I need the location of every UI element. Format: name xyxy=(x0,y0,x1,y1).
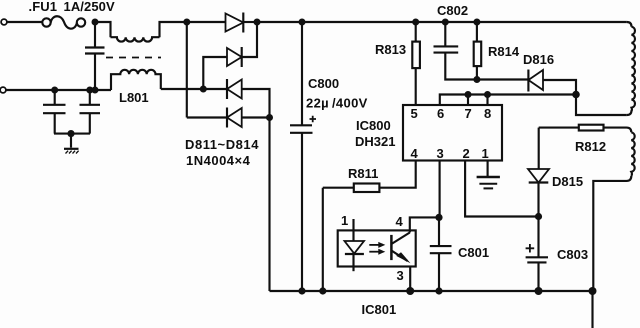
pin 8 xyxy=(484,106,491,121)
wire pin4 to R811 xyxy=(379,161,415,188)
node fuse output xyxy=(92,19,99,26)
label D815 xyxy=(552,174,583,189)
wire bottom bus xyxy=(270,290,593,292)
label IC800 xyxy=(356,118,391,133)
core dashed line L801 xyxy=(106,57,161,59)
svg-text:IC801: IC801 xyxy=(362,302,397,317)
svg-text:3: 3 xyxy=(437,146,444,161)
diode D816 xyxy=(528,70,576,95)
diode D813 xyxy=(227,79,270,118)
transformer T secondary winding xyxy=(593,128,634,291)
node bus C803 xyxy=(535,287,543,295)
wire DC- down xyxy=(268,118,270,292)
resistor R813 xyxy=(412,22,420,105)
label C801 xyxy=(458,245,489,260)
pin 7 xyxy=(465,106,472,121)
node bridge AC2 xyxy=(200,86,207,93)
svg-text:C803: C803 xyxy=(557,247,588,262)
transformer T primary winding xyxy=(576,22,635,115)
wire Y-caps common xyxy=(54,133,90,135)
svg-text:IC800: IC800 xyxy=(356,118,391,133)
node X-cap bottom xyxy=(92,87,99,94)
label R813 xyxy=(375,42,406,57)
inductor L801 top winding xyxy=(111,37,160,41)
wire AC neutral xyxy=(6,89,111,91)
node pin7 xyxy=(465,91,472,98)
wire pin3 down xyxy=(439,161,441,218)
svg-text:.FU1 1A/250V: .FU1 1A/250V xyxy=(29,0,116,14)
pin 4 xyxy=(411,146,419,161)
wire terminal to fuse xyxy=(7,21,43,23)
svg-text:6: 6 xyxy=(437,106,444,121)
ground (IC pin1) xyxy=(477,161,500,189)
wire pin2 to D815 node xyxy=(465,161,538,217)
optocoupler IC801 box xyxy=(338,230,416,266)
capacitor Y1 xyxy=(43,90,66,134)
resistor R812 xyxy=(539,125,604,131)
svg-text:L801: L801 xyxy=(119,90,149,105)
node bus C801 xyxy=(435,287,442,294)
svg-text:R814: R814 xyxy=(488,44,520,59)
wire top bus DC+ xyxy=(257,21,627,23)
label 1N4004x4 xyxy=(186,153,251,168)
pin 3 xyxy=(437,146,444,161)
label 22u/400V xyxy=(306,96,368,111)
opto pin 4 label xyxy=(396,214,404,229)
svg-text:8: 8 xyxy=(484,106,491,121)
svg-text:1: 1 xyxy=(341,213,348,228)
pin 6 xyxy=(437,106,444,121)
wire L801 top to bridge xyxy=(160,22,187,37)
node bus C800 xyxy=(298,287,305,294)
svg-text:D811~D814: D811~D814 xyxy=(185,137,259,152)
label D816 xyxy=(523,52,554,67)
wire pin8 stub xyxy=(486,95,488,106)
terminal J2 (AC neutral input) xyxy=(0,87,6,93)
svg-text:R811: R811 xyxy=(348,166,378,181)
diode D811 xyxy=(226,13,258,33)
label DH321 xyxy=(355,134,395,149)
capacitor C803 xyxy=(526,217,548,292)
resistor R814 xyxy=(474,22,482,80)
node R813 top xyxy=(412,19,419,26)
diode D815 xyxy=(528,128,549,217)
wire secondary return down xyxy=(591,291,593,328)
capacitor X (across line) xyxy=(85,22,105,90)
svg-text:C801: C801 xyxy=(458,245,489,260)
opto light arrows xyxy=(369,242,385,255)
node Y-cap 2 xyxy=(86,87,93,94)
capacitor Y2 xyxy=(80,90,101,134)
inductor L801 bottom winding xyxy=(111,70,161,90)
node snubber xyxy=(473,76,480,83)
opto pin 4 wire xyxy=(410,217,439,232)
node bridge DC+ xyxy=(254,19,261,26)
label C800 xyxy=(308,76,339,91)
svg-text:D815: D815 xyxy=(552,174,583,189)
ground (chassis, left) xyxy=(64,134,79,154)
node D815 cathode xyxy=(535,213,542,220)
diode D812 xyxy=(203,22,257,89)
pin 2 xyxy=(463,146,470,161)
svg-text:R812: R812 xyxy=(575,139,606,154)
terminal J1 (AC live input) xyxy=(1,19,7,25)
node Y-cap common xyxy=(67,130,74,137)
label D811~D814 xyxy=(185,137,259,152)
svg-text:4: 4 xyxy=(396,214,404,229)
wire R811 left down to bus xyxy=(322,188,324,291)
capacitor C802 xyxy=(434,22,477,80)
node pin8 xyxy=(484,91,491,98)
diode D814 xyxy=(187,108,270,128)
label R812 xyxy=(575,139,606,154)
svg-text:1N4004×4: 1N4004×4 xyxy=(186,153,251,168)
opto LED diode xyxy=(345,230,365,271)
capacitor C800 xyxy=(290,22,316,291)
wire snubber to D816 xyxy=(477,78,529,80)
opto pin 1 stub xyxy=(352,219,354,230)
svg-text:DH321: DH321 xyxy=(355,134,395,149)
svg-text:R813: R813 xyxy=(375,42,406,57)
svg-text:7: 7 xyxy=(465,106,472,121)
wire top bus bridge section xyxy=(187,21,226,23)
pin 1 xyxy=(482,146,489,161)
opto pin 3 label xyxy=(397,268,404,283)
node R814 top xyxy=(473,19,480,26)
svg-text:D816: D816 xyxy=(523,52,554,67)
node pin3 / C801 xyxy=(435,214,442,221)
svg-text:2: 2 xyxy=(463,146,470,161)
svg-text:4: 4 xyxy=(411,146,419,161)
node bridge AC1 xyxy=(183,19,190,26)
wire fuse node to L801 top xyxy=(95,22,111,37)
IC800 box xyxy=(403,105,502,161)
svg-text:3: 3 xyxy=(397,268,404,283)
opto pin 1 label xyxy=(341,213,348,228)
wire pin6 drain bus xyxy=(440,95,576,106)
opto pin 3 wire xyxy=(409,267,411,292)
label L801 xyxy=(119,90,149,105)
svg-text:C800: C800 xyxy=(308,76,339,91)
node bus secondary return xyxy=(589,287,597,295)
label R811 xyxy=(348,166,378,181)
node bridge DC- xyxy=(266,114,273,121)
label FU1 1A/250V xyxy=(29,0,116,14)
label C803 xyxy=(557,247,588,262)
opto phototransistor Q xyxy=(391,233,410,264)
node Y-cap 1 xyxy=(51,87,58,94)
capacitor C801 xyxy=(430,217,452,291)
label R814 xyxy=(488,44,520,59)
wire AC2 to bridge xyxy=(161,88,227,90)
fuse FU1 xyxy=(42,16,85,28)
node C800 top xyxy=(299,19,306,26)
resistor R811 xyxy=(323,184,380,193)
wire pin7 stub xyxy=(467,95,469,106)
pin 5 xyxy=(411,106,418,121)
label C802 xyxy=(437,3,468,18)
wire AC1 vertical xyxy=(186,22,188,118)
node drain xyxy=(572,91,580,99)
svg-text:1: 1 xyxy=(482,146,489,161)
label IC801 xyxy=(362,302,397,317)
node C802 top xyxy=(442,19,449,26)
node bus R811 xyxy=(319,287,326,294)
svg-text:C802: C802 xyxy=(437,3,468,18)
svg-text:5: 5 xyxy=(411,106,418,121)
node bus opto pin3 xyxy=(406,287,414,295)
svg-text:22µ /400V: 22µ /400V xyxy=(306,96,368,111)
